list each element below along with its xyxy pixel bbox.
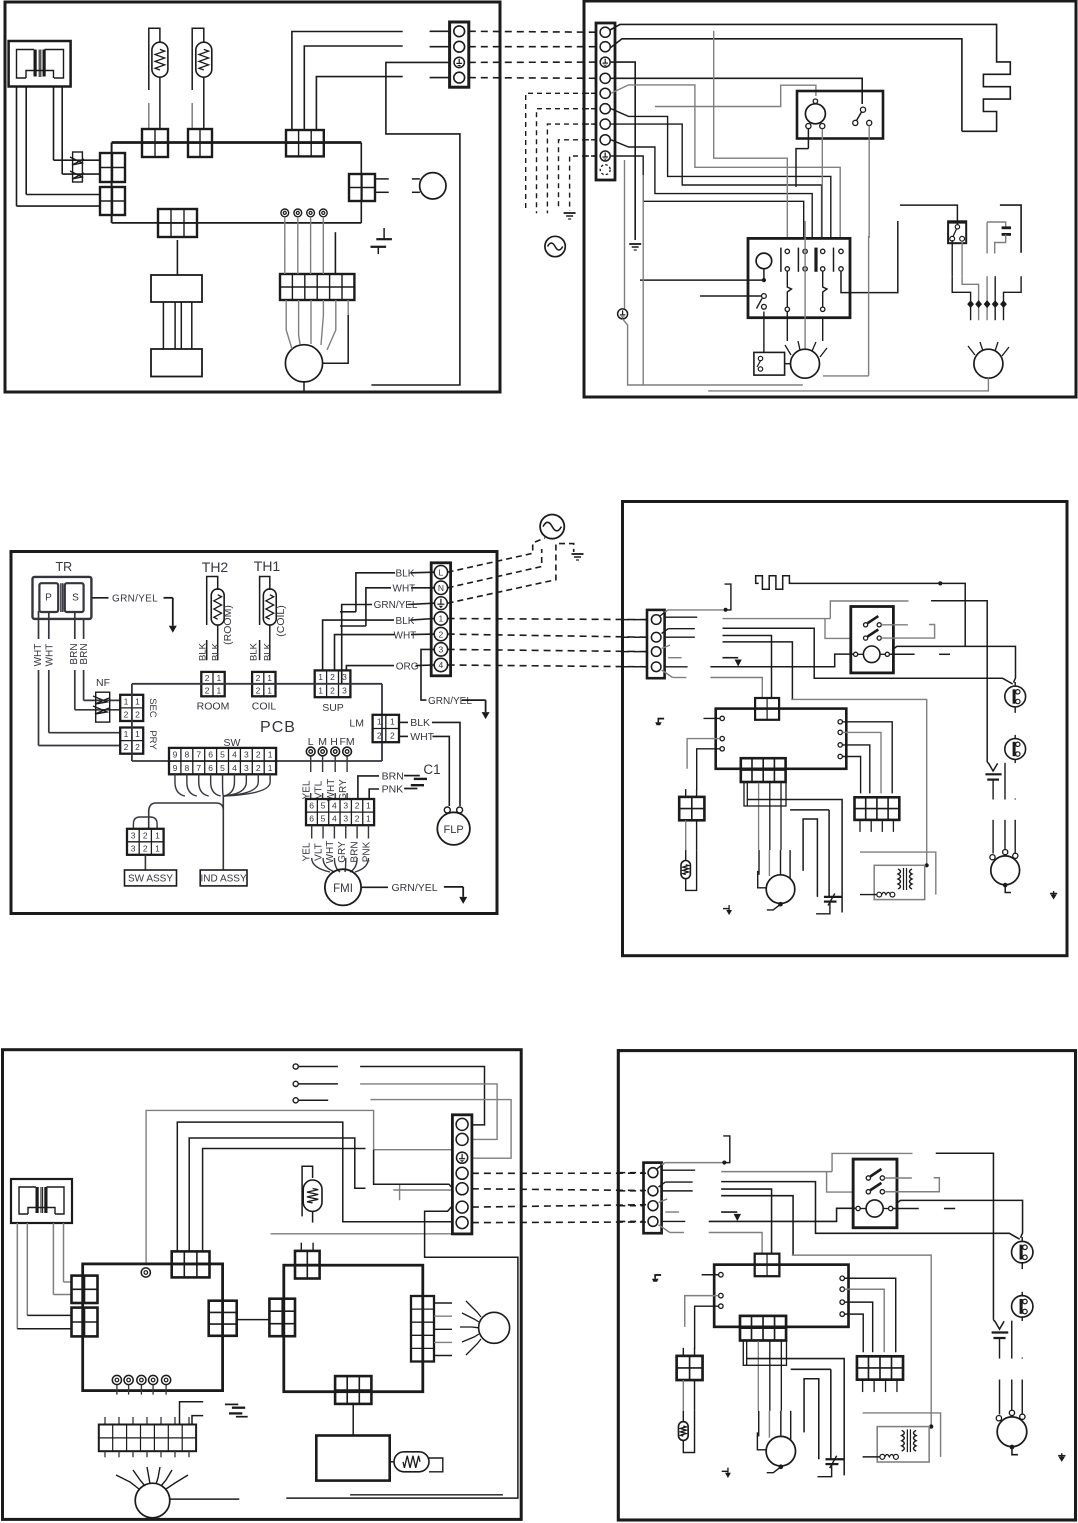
svg-text:GRN/YEL: GRN/YEL <box>392 882 438 894</box>
svg-text:2: 2 <box>135 710 140 720</box>
svg-text:BRN: BRN <box>382 771 404 783</box>
svg-text:BLK: BLK <box>263 642 274 661</box>
pin terminal <box>331 747 340 756</box>
svg-text:WHT: WHT <box>410 731 434 743</box>
wire through relay (panel2) <box>804 221 806 349</box>
svg-text:1: 1 <box>267 685 272 695</box>
heater resistor (panel5) <box>302 1166 322 1222</box>
ground terminal 9 (panel2) <box>600 151 610 161</box>
connector PRY <box>120 728 143 754</box>
capacitor (panel5) <box>225 1404 248 1416</box>
wire B (panel5) <box>189 1138 365 1251</box>
fan motor FMI (panel1) <box>278 315 348 392</box>
earth terminal (panel2) <box>618 309 628 319</box>
svg-text:GRN/YEL: GRN/YEL <box>374 600 418 611</box>
svg-text:4: 4 <box>232 750 237 760</box>
wire loops above strip (panel5) <box>180 1402 204 1425</box>
svg-text:ROOM: ROOM <box>197 701 230 713</box>
wire terminal3 to GRN/YEL gnd <box>421 649 434 700</box>
fan motor overload box (panel2) <box>754 352 785 375</box>
svg-text:8: 8 <box>184 750 189 760</box>
dashed interconnects to panel6 <box>472 1172 646 1174</box>
wires below relay (panel2) <box>763 312 765 353</box>
wire to compressor top (panel2) <box>655 85 816 106</box>
svg-text:BLK: BLK <box>410 717 430 729</box>
svg-text:1: 1 <box>268 750 273 760</box>
wire transformer run (panel5) <box>146 1110 452 1264</box>
panel 5 border: indoor heat-pump wiring diagram <box>3 1050 522 1520</box>
AC power source (gap mid) <box>540 515 564 539</box>
svg-text:6: 6 <box>208 763 213 773</box>
svg-text:BLK: BLK <box>396 569 415 580</box>
svg-text:S: S <box>72 593 79 604</box>
ground terminal 3 (panel2) <box>600 57 610 67</box>
fan-out wires from terminals to bundle (panel2) <box>611 85 840 238</box>
PCB1 right connector 3x2 <box>209 1301 237 1336</box>
pin terminal (panel1) <box>307 209 315 217</box>
switch lead (panel2) <box>951 240 953 276</box>
noise filter NF <box>93 677 110 722</box>
dashed interconnect lines from panel1 terminal block <box>469 30 596 33</box>
wire gnd drop (panel2) <box>611 62 635 240</box>
capacitor C1 <box>404 762 441 789</box>
svg-text:FMI: FMI <box>333 883 353 895</box>
svg-text:IND ASSY: IND ASSY <box>201 874 247 885</box>
svg-text:9: 9 <box>173 763 178 773</box>
connector strip 7x2 (panel5) <box>105 1417 189 1425</box>
wire BLK L <box>356 573 395 612</box>
connector SEC <box>120 695 143 721</box>
svg-text:2: 2 <box>256 750 261 760</box>
TR secondary leads <box>38 611 40 639</box>
svg-text:(ROOM): (ROOM) <box>222 605 234 645</box>
svg-text:3: 3 <box>244 750 249 760</box>
fan motor FM1 (panel2) <box>785 341 827 378</box>
svg-text:1: 1 <box>135 696 140 706</box>
connector SW (panel1) <box>158 209 197 237</box>
PCB2 top connector 2x2 <box>295 1251 320 1279</box>
thermistor TH1 (panel1 coil sensor) <box>192 28 212 128</box>
SUP wires to terminal block (panel1) <box>292 32 403 131</box>
wire WHT N <box>366 588 391 626</box>
defrost heater meander circuit (panel4 only) <box>756 576 966 647</box>
svg-text:3: 3 <box>343 801 348 811</box>
svg-text:1: 1 <box>318 672 323 682</box>
svg-text:5: 5 <box>220 763 225 773</box>
svg-text:2: 2 <box>355 801 360 811</box>
pin terminal <box>318 747 327 756</box>
svg-text:3: 3 <box>342 686 347 696</box>
SW harness <box>133 774 270 870</box>
svg-text:1: 1 <box>216 673 221 683</box>
svg-text:TH1: TH1 <box>254 558 281 574</box>
ground terminal (panel1) <box>454 57 464 67</box>
svg-text:SUP: SUP <box>322 702 344 714</box>
connector SUP (panel1) <box>286 130 324 156</box>
svg-text:1: 1 <box>216 685 221 695</box>
wire PCB1 to PCB2 (panel5) <box>237 1319 270 1321</box>
svg-text:3: 3 <box>342 672 347 682</box>
fan motor (panel5) <box>116 1467 239 1518</box>
svg-text:2: 2 <box>439 629 444 639</box>
svg-text:PRY: PRY <box>147 730 158 750</box>
louver motor FLP <box>437 807 470 845</box>
svg-text:FM: FM <box>340 736 355 748</box>
wire to c7 (panel5) <box>177 1122 452 1251</box>
pin terminal <box>306 747 315 756</box>
svg-text:GRN/YEL: GRN/YEL <box>112 594 158 605</box>
thermistor TH1 (COIL) <box>249 558 288 661</box>
svg-text:1: 1 <box>155 843 160 853</box>
svg-text:BRN: BRN <box>79 643 90 664</box>
pin terminal (panel1) <box>281 209 289 217</box>
wire E: c6 right-side run (panel5) <box>286 1206 518 1498</box>
svg-text:2: 2 <box>143 843 148 853</box>
svg-text:2: 2 <box>330 672 335 682</box>
svg-text:TR: TR <box>55 560 72 574</box>
svg-text:2: 2 <box>124 710 129 720</box>
vertical crossing wire (panel2) <box>714 31 788 238</box>
svg-text:WHT: WHT <box>45 644 56 667</box>
svg-text:2: 2 <box>143 830 148 840</box>
svg-text:1: 1 <box>377 717 382 727</box>
svg-text:M: M <box>318 736 327 748</box>
wire feed to pressure switch (panel2) <box>900 205 957 224</box>
svg-text:2: 2 <box>205 673 210 683</box>
FMI motor leads (panel1) <box>285 300 287 315</box>
TR leads (panel5) <box>17 1223 71 1329</box>
noise filter NF (panel1) <box>70 152 84 182</box>
svg-text:5: 5 <box>220 750 225 760</box>
aux control box (panel5) <box>316 1436 389 1481</box>
svg-text:9: 9 <box>173 750 178 760</box>
svg-text:5: 5 <box>321 814 326 824</box>
ground terminal (panel5) <box>457 1152 468 1163</box>
defrost heater meander (panel2) <box>610 24 1010 131</box>
relay coil lead + feed (panel2) <box>763 269 765 280</box>
remote switch contacts (panel5) <box>293 1064 338 1103</box>
chassis ground (panel2) <box>629 243 641 245</box>
connector COIL <box>252 672 275 696</box>
svg-text:2: 2 <box>256 763 261 773</box>
terminal block TB5 (panel5) <box>452 1115 472 1234</box>
spare terminal (dashed, panel2) <box>600 165 610 175</box>
svg-text:5: 5 <box>321 801 326 811</box>
svg-text:3: 3 <box>439 645 444 655</box>
svg-text:1: 1 <box>124 729 129 739</box>
svg-text:BRN: BRN <box>350 841 361 862</box>
svg-text:N: N <box>438 583 444 593</box>
svg-text:YEL: YEL <box>301 842 312 861</box>
PCB2 bottom connector 3x2 <box>335 1376 371 1404</box>
transformer TR (panel1) <box>9 41 71 87</box>
aux heater resistor (panel5) <box>390 1452 443 1472</box>
compressor motor CM (panel2) <box>708 342 1009 391</box>
svg-text:8: 8 <box>184 763 189 773</box>
wires LM to FLP <box>399 721 408 723</box>
svg-text:2: 2 <box>390 730 395 740</box>
dashed stubs left of block (panel2) <box>584 92 596 94</box>
svg-text:PNK: PNK <box>382 784 404 796</box>
terminal pins row (panel5) <box>112 1375 170 1394</box>
connector PRY (panel1) <box>100 187 125 215</box>
PCB1 left connectors <box>72 1276 98 1303</box>
svg-text:GRN/YEL: GRN/YEL <box>428 696 472 707</box>
svg-text:6: 6 <box>309 801 314 811</box>
wire C (panel5) <box>203 1149 366 1252</box>
svg-text:1: 1 <box>366 801 371 811</box>
svg-text:1: 1 <box>155 830 160 840</box>
svg-text:PCB: PCB <box>260 719 296 736</box>
grey hook at c5 (panel5) <box>393 1189 452 1191</box>
PCB2 right connector 2x5 <box>411 1296 434 1362</box>
pin terminal (panel1) <box>319 209 327 217</box>
fan motor FLP (panel1) <box>412 173 446 199</box>
svg-text:SEC: SEC <box>147 698 158 718</box>
svg-text:TH2: TH2 <box>202 559 229 575</box>
transformer TR <box>33 560 92 619</box>
svg-text:6: 6 <box>309 814 314 824</box>
gnd arrow TR <box>164 597 173 599</box>
svg-text:1: 1 <box>267 673 272 683</box>
svg-text:L: L <box>439 567 444 577</box>
panel 4: outdoor unit wiring diagram (first) <box>623 502 1068 956</box>
IND ASSY box <box>200 870 247 886</box>
PCB2 left connector <box>269 1299 295 1337</box>
svg-text:2: 2 <box>135 742 140 752</box>
svg-text:H: H <box>330 736 338 748</box>
compressor leads down (panel2) <box>807 129 809 149</box>
connector LM <box>373 715 399 742</box>
svg-text:FLP: FLP <box>444 824 464 836</box>
field ground (gap below panel1) <box>564 212 576 214</box>
wire ORG 4 <box>346 666 394 671</box>
power relay 52C (panel2) <box>748 238 850 317</box>
field ground (gap mid) <box>572 553 584 555</box>
run capacitor C (panel2) <box>987 222 1011 254</box>
svg-text:WHT: WHT <box>394 630 417 641</box>
svg-text:1: 1 <box>124 696 129 706</box>
wires BRN PNK to capacitor <box>358 776 379 799</box>
connector ROOM <box>201 672 224 696</box>
thermistor TH2 (panel1 room sensor) <box>149 28 168 128</box>
svg-text:1: 1 <box>390 717 395 727</box>
dashed to AC source <box>448 538 545 572</box>
svg-text:3: 3 <box>131 843 136 853</box>
svg-text:WHT: WHT <box>33 644 44 667</box>
overload to motor link (panel2) <box>785 363 791 365</box>
panel 3 border: indoor unit wiring diagram (labeled) <box>11 552 497 914</box>
wire under terminal block (panel5) <box>271 1233 459 1235</box>
connector ROOM (panel1) <box>142 129 168 157</box>
svg-text:4: 4 <box>332 814 337 824</box>
pin terminal (panel1) <box>294 209 302 217</box>
svg-text:C1: C1 <box>423 762 440 777</box>
svg-text:2: 2 <box>330 686 335 696</box>
connector FM 6x2 <box>306 799 374 825</box>
svg-text:2: 2 <box>355 814 360 824</box>
svg-text:L: L <box>308 736 314 748</box>
panel 2 border: outdoor unit wiring diagram (large) <box>584 1 1076 397</box>
svg-text:2: 2 <box>124 742 129 752</box>
svg-text:3: 3 <box>131 830 136 840</box>
svg-text:(COIL): (COIL) <box>275 605 287 637</box>
svg-text:2: 2 <box>377 730 382 740</box>
wire GRN/YEL to ground terminal <box>342 605 372 684</box>
terminal block TB3 <box>431 563 450 676</box>
svg-text:1: 1 <box>135 729 140 739</box>
bottom long wire (panel5) <box>350 1494 503 1496</box>
terminal block TB (panel1) <box>450 22 469 87</box>
svg-text:PNK: PNK <box>361 841 372 862</box>
svg-text:GRY: GRY <box>337 841 348 863</box>
svg-text:BLK: BLK <box>396 616 415 627</box>
wire SW harness (panel1) <box>176 240 178 275</box>
svg-text:BLK: BLK <box>249 642 260 661</box>
svg-text:SW ASSY: SW ASSY <box>128 874 173 885</box>
PCB board <box>132 684 382 761</box>
wire FMI GRN/YEL <box>361 886 388 888</box>
svg-text:ORG: ORG <box>396 661 419 672</box>
TR leads <box>16 86 18 206</box>
wire to ground circle (panel2) <box>624 160 626 309</box>
AC power source (gap, below panel1) <box>545 236 565 256</box>
junction dot (panel4) <box>939 582 942 585</box>
ground wire from terminal 3 (panel1) <box>371 62 460 385</box>
svg-text:2: 2 <box>256 673 261 683</box>
svg-text:4: 4 <box>332 801 337 811</box>
compressor relay box (panel2) <box>797 91 883 139</box>
switch long runs to terminal block (panel5) <box>360 1067 484 1125</box>
SW ASSY box <box>144 855 146 870</box>
panel 6: outdoor unit wiring diagram (second) <box>618 1051 1075 1520</box>
svg-text:1: 1 <box>439 614 444 624</box>
wire N return (panel2) <box>610 39 962 132</box>
transformer TR (panel5) <box>11 1179 72 1223</box>
relay aux switch (panel2) <box>700 294 766 310</box>
capacitor C1 (panel1) <box>335 228 392 274</box>
connector SEC (panel1) <box>100 153 125 182</box>
svg-text:4: 4 <box>232 763 237 773</box>
ground terminal (panel3) <box>435 597 448 610</box>
wire relay to right (panel2) <box>841 221 898 293</box>
capacitor bracket wire (panel2) <box>1000 205 1021 253</box>
panel 1 border: indoor unit wiring diagram (small) <box>5 2 500 392</box>
svg-text:2: 2 <box>256 685 261 695</box>
PCB1 (panel5) <box>83 1264 223 1391</box>
svg-text:P: P <box>45 593 52 604</box>
wire BLK 1 <box>323 620 394 670</box>
svg-text:4: 4 <box>439 660 444 670</box>
relay contacts (panel2) <box>781 248 843 272</box>
connector COIL (panel1) <box>188 129 212 157</box>
svg-text:1: 1 <box>366 814 371 824</box>
svg-text:BLK: BLK <box>210 642 221 661</box>
svg-text:3: 3 <box>244 763 249 773</box>
connector 321 <box>127 829 164 855</box>
svg-text:2: 2 <box>205 685 210 695</box>
connector SUP <box>315 670 351 697</box>
gnd arrow terminal3 <box>462 699 486 701</box>
svg-text:COIL: COIL <box>252 701 277 713</box>
interconnect rects lower-left (panel1 switch assy) <box>151 275 202 302</box>
fan motor FMI <box>325 869 361 905</box>
PCB1 top connector 3x2 <box>172 1251 210 1277</box>
wire to terminal c5 (panel5) <box>374 1150 453 1189</box>
earth wire (panel2) <box>623 319 803 385</box>
svg-text:7: 7 <box>196 750 201 760</box>
wire to aux box (panel5) <box>352 1404 354 1436</box>
svg-text:1: 1 <box>318 686 323 696</box>
svg-text:BLK: BLK <box>198 642 209 661</box>
connector FM 6x2 (panel1) <box>280 274 354 300</box>
svg-text:6: 6 <box>208 750 213 760</box>
svg-text:3: 3 <box>343 814 348 824</box>
run capacitor + contact box wires vertical (panel2) <box>868 236 870 376</box>
thermistor TH2 (ROOM) <box>198 559 235 661</box>
junction diamonds row (panel2) <box>952 276 1021 320</box>
dashed interconnects to panel4 <box>448 619 647 620</box>
svg-text:LM: LM <box>349 718 364 730</box>
PCB2 (panel5) <box>284 1265 423 1392</box>
svg-text:7: 7 <box>196 763 201 773</box>
svg-text:WHT: WHT <box>393 584 416 595</box>
pressure switch box (panel2) <box>948 221 966 243</box>
connector LM (panel1) <box>349 174 375 201</box>
wire GRN/YEL from TR <box>92 597 108 599</box>
svg-text:1: 1 <box>268 763 273 773</box>
terminal block TB2 (panel2) <box>596 23 615 180</box>
dashed drop lines in gap (panel2 field wiring) <box>526 93 596 209</box>
gnd arrow FMI <box>444 886 463 888</box>
wire terminal4 to switch (panel2) <box>611 78 862 104</box>
fan motor right (panel5) <box>460 1301 510 1355</box>
relay contact step wires (panel2) <box>787 271 791 307</box>
wire WHT 2 <box>335 635 396 671</box>
wire right of block down (panel2) <box>642 175 644 385</box>
pin terminal <box>343 747 352 756</box>
svg-text:NF: NF <box>96 677 110 689</box>
PCB board (panel1) <box>112 143 362 223</box>
